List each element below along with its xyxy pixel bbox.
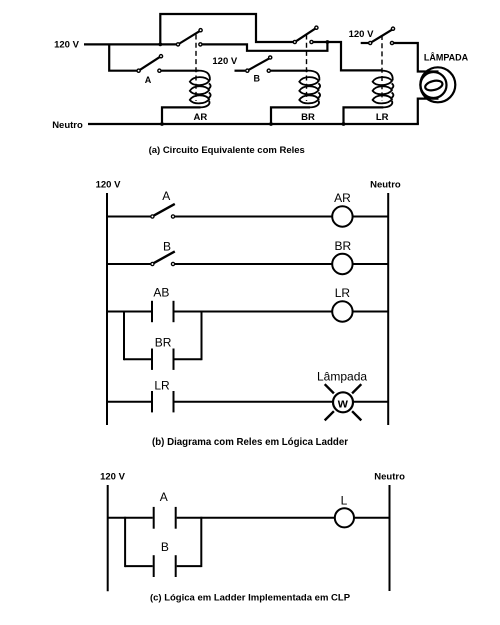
- svg-text:LR: LR: [376, 112, 389, 123]
- svg-text:w: w: [337, 395, 349, 410]
- svg-text:B: B: [161, 540, 169, 554]
- rung 4 wire right: [353, 401, 388, 403]
- switch B: [246, 56, 272, 72]
- left rail: [106, 193, 108, 425]
- wire contact LR to lamp: [394, 43, 439, 72]
- svg-text:120 V: 120 V: [212, 56, 237, 67]
- wire contact AR to junction node: [202, 43, 327, 51]
- svg-text:BR: BR: [334, 239, 351, 253]
- rung 4 wire middle: [175, 401, 334, 403]
- contact BR (NO contact bars): [152, 349, 174, 370]
- wire coil LR to neutro: [344, 107, 384, 124]
- svg-text:BR: BR: [301, 112, 315, 123]
- contact A (switch symbol): [151, 204, 175, 218]
- branch BR vertical left: [123, 311, 125, 361]
- wire lamp to neutro: [418, 99, 439, 124]
- junction coil LR neutro: [342, 122, 346, 126]
- left rail c: [107, 485, 109, 591]
- wire branch down to switch A: [109, 44, 137, 70]
- svg-text:120 V: 120 V: [96, 180, 121, 191]
- svg-text:(b) Diagrama com Reles em Lógi: (b) Diagrama com Reles em Lógica Ladder: [152, 437, 348, 448]
- contact B (switch symbol): [151, 251, 175, 265]
- svg-text:(c) Lógica em Ladder Implement: (c) Lógica em Ladder Implementada em CLP: [150, 593, 351, 604]
- rung 1 wire right: [353, 216, 389, 218]
- rung c wire right: [354, 517, 390, 519]
- svg-text:120 V: 120 V: [349, 29, 374, 40]
- branch BR wire right: [175, 358, 202, 360]
- branch B vertical right: [200, 517, 202, 567]
- branch B vertical left: [124, 517, 126, 567]
- wire contact BR to coil LR: [314, 42, 382, 70]
- rung 1 wire middle: [175, 216, 333, 218]
- coil BR (ladder): [332, 254, 352, 274]
- coil LR: [373, 71, 394, 108]
- rung c wire left: [108, 517, 153, 519]
- coil AR: [190, 71, 211, 108]
- coil BR: [299, 71, 320, 108]
- svg-text:AR: AR: [334, 191, 351, 205]
- rung 3 wire right: [353, 311, 389, 313]
- svg-text:LR: LR: [335, 286, 351, 300]
- dashed link contact AR to coil AR: [195, 35, 197, 102]
- rung 3 wire left: [107, 311, 151, 313]
- dashed link contact LR to coil LR: [381, 35, 383, 101]
- wire coil AR to neutro: [162, 107, 201, 124]
- wire switch A to coil AR: [161, 70, 198, 72]
- svg-text:LR: LR: [154, 378, 170, 392]
- rung 4 wire left: [107, 401, 151, 403]
- junction coil BR neutro: [269, 122, 273, 126]
- wire tap to top bypass to contact BR: [160, 14, 293, 44]
- lamp output symbol: [325, 384, 362, 420]
- svg-text:A: A: [145, 75, 152, 85]
- svg-text:A: A: [162, 189, 170, 203]
- svg-text:A: A: [160, 490, 168, 504]
- wire neutro rail: [88, 123, 419, 125]
- lamp: [420, 67, 455, 102]
- relay contact BR: [293, 26, 318, 44]
- svg-text:120 V: 120 V: [54, 40, 79, 51]
- svg-text:AR: AR: [194, 112, 208, 123]
- svg-text:BR: BR: [155, 335, 172, 349]
- rung 3 wire middle: [175, 311, 333, 313]
- relay contact LR: [369, 27, 395, 45]
- junction coil AR neutro: [160, 122, 164, 126]
- rung 2 wire left: [107, 263, 151, 265]
- svg-text:Neutro: Neutro: [52, 120, 83, 131]
- junction node after contacts: [326, 40, 330, 44]
- wire 120V rail: [84, 43, 176, 45]
- contact AB (NO contact bars): [152, 301, 174, 322]
- svg-text:120 V: 120 V: [100, 472, 125, 483]
- svg-text:Lâmpada: Lâmpada: [317, 370, 367, 384]
- coil L: [335, 508, 354, 527]
- branch BR wire left: [124, 358, 151, 360]
- rung c wire middle: [177, 517, 335, 519]
- branch BR vertical right: [201, 311, 203, 361]
- svg-text:Neutro: Neutro: [374, 472, 405, 483]
- right rail: [387, 193, 389, 425]
- rung 2 wire right: [353, 263, 389, 265]
- wire stub 120V to contact LR: [361, 42, 369, 44]
- contact A clp (NO contact bars): [154, 507, 176, 529]
- wire coil BR to neutro: [271, 107, 310, 124]
- branch B wire right: [177, 565, 202, 567]
- svg-text:L: L: [341, 493, 348, 507]
- branch B wire left: [125, 565, 153, 567]
- dashed link contact BR to coil BR: [306, 35, 308, 102]
- svg-text:LÂMPADA: LÂMPADA: [424, 52, 469, 63]
- wire stub 120V to switch B: [235, 70, 246, 72]
- svg-text:AB: AB: [153, 285, 169, 299]
- relay contact AR: [176, 29, 202, 46]
- rung 2 wire middle: [175, 263, 333, 265]
- contact LR (NO contact bars): [152, 391, 174, 412]
- svg-text:Neutro: Neutro: [370, 180, 401, 191]
- coil LR (ladder): [332, 301, 352, 321]
- right rail c: [389, 485, 391, 591]
- wire switch B to coil BR: [271, 70, 308, 72]
- junction 120V tap: [158, 43, 162, 47]
- rung 1 wire left: [107, 216, 151, 218]
- svg-text:B: B: [163, 239, 171, 253]
- coil AR (ladder): [332, 206, 352, 226]
- svg-text:B: B: [254, 74, 261, 84]
- contact B clp (NO contact bars): [154, 555, 176, 577]
- switch A: [137, 55, 163, 73]
- svg-text:(a) Circuito Equivalente com R: (a) Circuito Equivalente com Reles: [149, 145, 305, 156]
